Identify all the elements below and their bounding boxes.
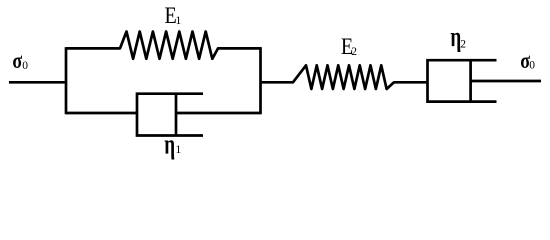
svg-text:1: 1 — [176, 144, 182, 156]
svg-text:2: 2 — [351, 46, 357, 58]
svg-text:2: 2 — [460, 38, 466, 50]
svg-text:0: 0 — [22, 60, 28, 72]
svg-text:0: 0 — [529, 60, 535, 72]
svg-text:σ: σ — [12, 49, 22, 74]
svg-text:1: 1 — [176, 15, 182, 27]
svg-text:η: η — [164, 129, 175, 161]
